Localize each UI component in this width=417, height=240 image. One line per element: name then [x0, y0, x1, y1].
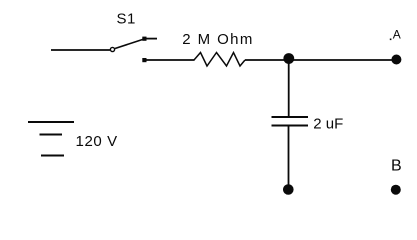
capacitor bottom terminal dot: [283, 184, 294, 195]
svg-text:2 uF: 2 uF: [313, 116, 343, 133]
wire: capacitor bottom plate down to terminal: [288, 126, 290, 187]
svg-text:A: A: [393, 28, 401, 42]
svg-text:2 M Ohm: 2 M Ohm: [182, 31, 253, 48]
svg-text:B: B: [391, 158, 402, 175]
switch S1 hinge circle: [110, 47, 114, 51]
svg-text:S1: S1: [117, 10, 136, 27]
wire: junction down to capacitor top plate: [288, 60, 290, 117]
battery 120 V: middle short plate: [40, 134, 63, 136]
capacitor C1 bottom plate: [272, 125, 309, 127]
svg-text:120 V: 120 V: [76, 133, 118, 150]
switch S1 lower terminal square: [142, 58, 146, 62]
capacitor C1 top plate: [272, 116, 309, 118]
switch S1 upper terminal square: [142, 37, 146, 41]
resistor 2 M Ohm zigzag: [194, 53, 245, 67]
node A terminal dot: [391, 55, 401, 65]
battery 120 V: top long plate: [28, 121, 74, 123]
stray mark below label A: [390, 39, 392, 41]
node B terminal dot: [391, 185, 401, 195]
wire: switch S1 lower terminal to resistor: [146, 59, 195, 61]
wire: stub from switch S1 upper terminal: [146, 38, 157, 40]
switch S1 blade (open): [115, 39, 144, 49]
junction dot (resistor / capacitor tap): [283, 53, 294, 64]
battery 120 V: bottom short plate: [41, 155, 64, 157]
wire: resistor to node A: [245, 59, 392, 61]
wire: left lead into switch S1: [51, 49, 110, 51]
